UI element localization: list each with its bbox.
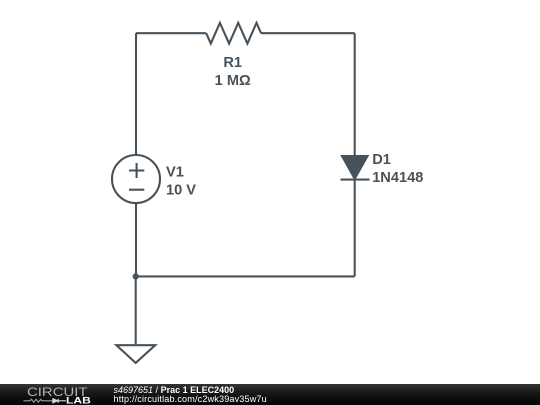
wire: bottom horizontal (junction to D1 cathode branch) xyxy=(136,275,355,277)
value 10 V xyxy=(166,182,196,198)
svg-text:V1: V1 xyxy=(166,164,184,180)
value 1 MΩ xyxy=(215,73,251,89)
svg-text:10 V: 10 V xyxy=(166,182,196,198)
label D1 xyxy=(372,152,391,168)
voltage source V1 xyxy=(112,155,160,203)
wire: right vertical upper (top node to D1 anode) xyxy=(354,33,356,156)
value 1N4148 xyxy=(372,170,423,186)
wire: right vertical lower (D1 cathode to bottom wire) xyxy=(354,180,356,277)
label R1 xyxy=(223,55,242,71)
wire: top horizontal left segment (V1 top node to R1 left terminal) xyxy=(136,32,206,34)
ground xyxy=(116,345,155,363)
junction node (V1/ground/bottom wire) xyxy=(133,273,139,279)
svg-text:1 MΩ: 1 MΩ xyxy=(215,73,251,89)
wire: top horizontal right segment (R1 right terminal to D1 anode node) xyxy=(261,32,355,34)
diode D1 xyxy=(341,156,370,180)
CircuitLab logo xyxy=(0,384,100,405)
wire: left vertical upper (top node down to V1 plus terminal) xyxy=(135,33,137,155)
wire: left vertical lower (V1 minus terminal to junction) xyxy=(135,203,137,276)
svg-text:D1: D1 xyxy=(372,152,391,168)
svg-text:1N4148: 1N4148 xyxy=(372,170,423,186)
wire: ground stem (junction down to ground symbol) xyxy=(135,276,137,344)
svg-text:LAB: LAB xyxy=(66,395,91,405)
footer attribution bar xyxy=(0,384,540,405)
resistor R1 xyxy=(206,23,261,44)
label V1 xyxy=(166,164,184,180)
svg-text:R1: R1 xyxy=(223,55,242,71)
